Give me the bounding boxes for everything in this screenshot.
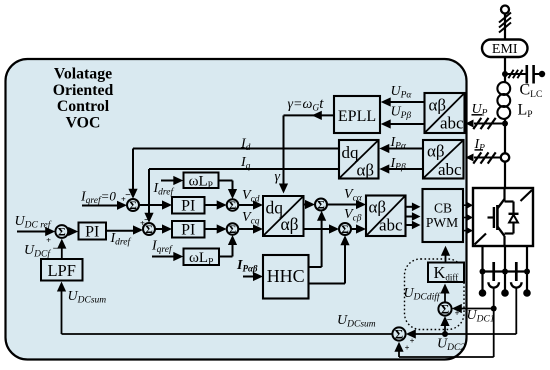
svg-text:Σ: Σ [129,200,137,212]
svg-text:PI: PI [85,224,99,241]
svg-text:Σ: Σ [58,225,66,239]
block PI1 [172,197,205,214]
wire UPb to EPLL [391,123,425,125]
DC bus wire [483,270,528,272]
junction node dot at CLC tap [502,71,508,77]
wire S5 to abc box [327,204,358,206]
block wLp1 [184,173,219,189]
svg-text:UP: UP [472,102,488,119]
EMI filter block [482,40,528,58]
svg-text:Volatage: Volatage [54,66,112,83]
svg-text:Oriented: Oriented [53,82,114,99]
wire S2 to PI2 [155,228,164,230]
block dq-ab measure [339,140,379,179]
svg-text:LPF: LPF [47,261,75,280]
capacitor C1 (UDC1) [492,262,495,281]
wire CLC right stub [534,73,540,75]
wire PI1 to S3 [205,204,219,206]
svg-text:LP: LP [518,102,533,121]
wire S4 to dqab box [238,228,254,230]
IGBT Q1 with diode [503,188,505,202]
wire UP measurement [474,123,505,125]
block ab-abc current [423,140,464,179]
wire S7 to PI3 [68,231,70,233]
summing junction S2 [143,223,155,235]
svg-text:+: + [455,308,460,318]
svg-text:abc: abc [438,160,462,179]
wire IPb to dq box [389,168,424,170]
wire EMI to node [504,57,506,83]
summing junction S5 [315,199,327,211]
wires abc to CBPWM [406,206,413,208]
wire PI2 to S4 [205,228,219,230]
wire S6 to abc box [351,228,358,230]
svg-text:PWM: PWM [426,215,458,230]
wire HHC to S5 [309,266,322,268]
wire grid to EMI [504,14,506,40]
svg-text:Σ: Σ [395,326,404,341]
wire Iq feedback [149,168,339,170]
wire EPLL output gamma [284,114,335,116]
svg-text:UDC1: UDC1 [467,308,495,325]
wire LP to converter [504,118,506,188]
summing junction S8 [392,327,405,340]
wire LPF to S7 [61,246,63,260]
current sensor circle IP [501,153,509,161]
three-phase hatch on UP wire [473,118,481,129]
arrows CBPWM to converter [463,204,468,206]
inductor LP coil [497,82,510,95]
summing junction S3 [227,199,239,211]
wire converter bottom leg c [526,246,528,292]
terminal dot CLC [539,71,545,77]
converter box [473,188,533,246]
node dot UP tap [502,121,508,127]
converter corner slashes [521,190,533,201]
svg-text:+: + [46,235,51,245]
terminal dots of legs [479,289,487,297]
three-phase hatch on IP wire [473,152,481,163]
grid terminal circle [501,6,509,14]
svg-text:Σ: Σ [229,200,237,212]
wire UDC2 up branch [444,324,446,334]
svg-text:Σ: Σ [341,224,349,236]
block LPF [41,259,83,281]
wire wLp2 to S4 [219,256,233,258]
svg-text:dq: dq [342,143,360,162]
svg-text:−: − [53,244,59,255]
svg-text:γ: γ [275,170,281,185]
svg-text:αβ: αβ [369,198,387,217]
svg-text:VOC: VOC [66,114,101,131]
junction dot UDC2 branch [442,331,448,337]
svg-text:Σ: Σ [229,224,237,236]
svg-text:CLC: CLC [520,82,543,101]
block ab-abc voltage [425,93,465,133]
wire dqab to S6 [304,228,331,230]
wire Iqref0 to S1 [82,205,119,207]
VOC controller region container [6,59,467,360]
svg-text:CB: CB [434,201,452,216]
wire UDC1 to sum [460,308,494,310]
svg-text:Σ: Σ [317,199,325,211]
wire IP measurement [474,157,501,159]
capacitor CLC plates [525,65,528,84]
block EPLL [334,96,380,133]
block dq-ab transform [263,196,304,236]
svg-text:PI: PI [181,198,195,215]
block wLp2 [184,249,220,266]
wire S1 to PI1 [139,204,164,206]
summing junction S4 [227,223,239,235]
svg-text:+: + [405,342,410,352]
wire S9 to Kdiff [444,291,446,302]
svg-text:abc: abc [440,114,464,133]
wire gamma vertical [283,115,285,186]
svg-text:PI: PI [181,222,195,239]
arrow IPab into HHC [243,276,255,278]
svg-text:Σ: Σ [145,224,153,236]
block Kdiff [428,263,464,283]
wire wLp1 to S3 [219,180,233,182]
svg-text:+: + [410,335,415,345]
svg-text:αβ: αβ [427,142,445,161]
wire CLC stub [505,73,526,75]
wire S3 to dqab box [238,204,254,206]
wire HHC to S6 [309,283,346,285]
summing junction S7 [55,225,68,238]
wire UPa to EPLL [391,101,425,103]
arrow Idref stub into wLp1 [161,180,176,182]
three-phase hatch on grid wire [499,13,511,23]
svg-text:HHC: HHC [267,266,305,286]
svg-text:abc: abc [379,216,403,235]
summing junction S1 [127,199,139,211]
wire dqab to S5 [304,204,307,206]
block PI3 [79,223,107,240]
wire UDC1 lower branch [493,309,495,358]
svg-text:−: − [447,315,453,326]
arrow UP into VOC [466,120,474,128]
wire UDCref to S7 [17,231,48,233]
svg-text:Control: Control [57,98,110,115]
capacitor C2 (UDC2) [515,262,518,281]
block CB PWM [423,189,464,242]
dotted container around Kdiff [405,259,465,330]
wire converter bottom leg a [481,246,483,292]
junction dots on DC bus [480,269,486,275]
svg-text:EPLL: EPLL [338,108,376,125]
three-phase hatch on CLC stub [508,70,513,78]
svg-text:γ=ωGt: γ=ωGt [288,96,325,114]
svg-text:αβ: αβ [357,161,375,180]
junction dot UDC1 [491,306,497,312]
block PI2 [172,221,205,238]
block HHC [263,255,309,299]
wire IPa to dq box [389,148,424,150]
svg-text:αβ: αβ [281,214,299,234]
svg-text:IP: IP [474,137,486,154]
wire Kdiff to CBPWM [445,254,447,263]
wire PI3 to S2 [106,230,135,232]
wire Id feedback [133,148,339,150]
svg-text:EMI: EMI [492,42,518,57]
summing junction S9 [438,302,451,315]
arrow Iqref stub into wLp2 [152,256,176,258]
summing junction S6 [339,223,351,235]
svg-text:αβ: αβ [429,96,447,115]
wire UDC2 to sums [414,333,516,335]
wire UDCsum to LPF [62,333,393,335]
block ab-abc output [366,196,406,237]
arrow IP into VOC [466,154,474,162]
wire converter bottom leg b [504,246,506,292]
